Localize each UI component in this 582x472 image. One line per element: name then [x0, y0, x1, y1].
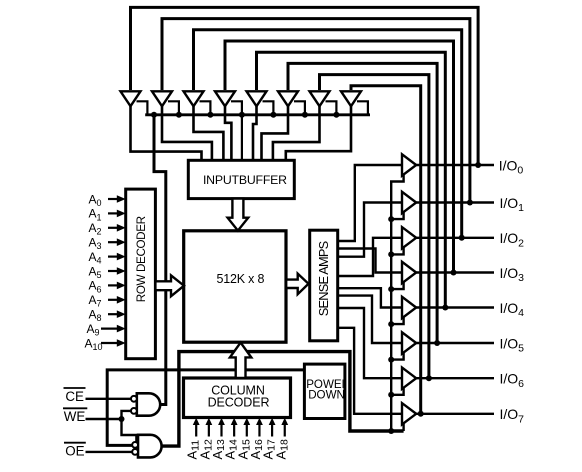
buffer TI5	[247, 91, 267, 106]
node rail dot 7	[333, 112, 339, 118]
block POWER DOWN	[304, 364, 345, 418]
arrowhead A9	[117, 325, 126, 333]
svg-text:CE: CE	[65, 389, 84, 404]
wire I/O4 line	[416, 306, 494, 308]
wire enable tap T5	[263, 101, 274, 115]
wire enable elbow buffer 2	[391, 212, 403, 219]
wire A8 arrow line	[108, 313, 118, 315]
wire top bus line 0 (T1 to I/O0)	[131, 7, 479, 165]
wire A14 arrow	[233, 424, 235, 437]
overline OE	[64, 442, 86, 444]
wire WE input	[86, 418, 122, 420]
wire T4 output to input buffer	[225, 106, 231, 160]
wire T3 output to input buffer	[194, 106, 224, 160]
node rail dot 3	[207, 112, 213, 118]
buffer TO6	[402, 332, 416, 353]
wire sense amp to output buffer 3	[337, 249, 402, 273]
wire CE input	[86, 398, 131, 400]
input buffer triangles (pointing down)	[121, 91, 362, 106]
wire gate G1 output to input-buffer enable rail	[154, 115, 166, 405]
wire T8 output to input buffer	[286, 106, 351, 160]
svg-text:SENSE AMPS: SENSE AMPS	[316, 241, 331, 316]
node I/O5 junction	[434, 340, 440, 346]
arrowhead A4	[117, 253, 126, 261]
wire A16 arrow	[258, 424, 260, 437]
node output rail dot 7	[388, 392, 394, 398]
arrowhead A14	[231, 418, 238, 425]
wire top bus line 3 (T4 to I/O3)	[225, 41, 454, 273]
wire A0 arrow line	[108, 198, 118, 200]
wire enable tap T3	[200, 101, 211, 115]
buffer TO2	[402, 192, 416, 213]
wire I/O5 line	[416, 342, 494, 344]
block ROW DECODER	[126, 189, 156, 359]
wire A17 arrow	[271, 424, 273, 437]
wire power-down control line	[107, 370, 304, 446]
wire gate G2 output read-enable run	[161, 352, 404, 447]
rotated address labels A11-A18	[185, 439, 291, 460]
control gates	[137, 393, 162, 457]
node output rail dot 5	[388, 321, 394, 327]
wire I/O0 line	[416, 164, 494, 166]
gate G1 input bubble 1	[131, 396, 137, 402]
node output rail dot 6	[388, 357, 394, 363]
svg-text:DECODER: DECODER	[208, 395, 270, 409]
node I/O1 junction	[467, 200, 473, 206]
wire T6 output to input buffer	[262, 106, 289, 160]
node I/O6 junction	[426, 375, 432, 381]
hollow arrows	[155, 199, 308, 378]
node output rail dot 2	[388, 216, 394, 222]
gate G1 input bubble 2	[131, 408, 137, 414]
svg-text:WE: WE	[64, 409, 86, 424]
wire enable elbow buffer 5	[391, 317, 403, 324]
wire enable elbow buffer 6	[391, 353, 403, 360]
wire I/O1 line	[416, 201, 494, 203]
arrowhead A15	[243, 418, 250, 425]
node I/O4 junction	[442, 305, 448, 311]
address labels A0-A10	[85, 192, 103, 352]
wire enable tap T8	[357, 101, 368, 115]
wire A12 arrow	[208, 424, 210, 437]
wire A11 arrow	[195, 424, 197, 437]
wire A3 arrow line	[108, 241, 118, 243]
gate G2 (read enable NAND)	[138, 435, 162, 458]
wire enable elbow buffer 7	[391, 388, 403, 395]
wire sense amp to output buffer 6	[337, 308, 402, 378]
svg-text:OE: OE	[65, 444, 84, 459]
arrowhead A12	[205, 418, 212, 425]
wire input-buffer enable rail	[145, 113, 370, 116]
wire A9 arrow line	[101, 328, 118, 330]
wire output-buffer enable rail	[391, 174, 403, 431]
wire I/O3 line	[416, 271, 494, 273]
wire T1 output to input buffer	[131, 106, 202, 160]
node I/O7 junction	[418, 411, 424, 417]
arrowhead A7	[117, 296, 126, 304]
wire sense amp to output buffer 5	[337, 296, 402, 343]
gate G2 input bubble 2	[132, 449, 138, 455]
output buffer triangles (pointing right)	[402, 154, 416, 424]
wire OE input	[86, 451, 133, 453]
gate G1 (CE/WE NAND)	[137, 393, 160, 415]
node rail dot 4	[239, 112, 245, 118]
node output rail dot 8	[388, 428, 394, 434]
block 512K x 8 array	[184, 231, 286, 342]
arrowhead A3	[117, 238, 126, 246]
svg-text:DOWN: DOWN	[308, 389, 345, 402]
buffer TI2	[152, 91, 172, 106]
arrowhead A18	[281, 418, 288, 425]
arrowhead A0	[117, 195, 126, 203]
buffer TI6	[278, 91, 298, 106]
overline CE	[64, 387, 86, 389]
I/O labels	[499, 157, 524, 425]
wire WE branch to G2	[122, 419, 137, 442]
wire WE branch to G1	[122, 411, 131, 419]
control labels with overlines	[64, 389, 86, 459]
wire sense amp to output buffer 0	[337, 165, 402, 241]
buffer TI4	[215, 91, 235, 106]
block INPUT BUFFER	[188, 160, 294, 198]
wire T2 output to input buffer	[162, 106, 212, 160]
node output rail dot 3	[388, 251, 394, 257]
block COLUMN DECODER	[184, 378, 291, 418]
wire A4 arrow line	[108, 256, 118, 258]
node output rail dot 4	[388, 286, 394, 292]
node rail dot 2	[176, 112, 182, 118]
wire I/O2 line	[416, 237, 494, 239]
arrowhead A10	[117, 339, 126, 347]
wire enable elbow buffer 4	[391, 282, 403, 289]
node I/O3 junction	[451, 270, 457, 276]
solid arrowheads into ROW DECODER	[117, 195, 126, 347]
arrowhead A6	[117, 282, 126, 290]
junction dots: top-bus to I/O lines	[119, 112, 482, 434]
block SENSE AMPS	[310, 230, 338, 341]
arrowhead A17	[269, 418, 276, 425]
wire sense amp to output buffer 4	[337, 288, 402, 307]
wire A7 arrow line	[108, 299, 118, 301]
buffer TO3	[402, 227, 416, 248]
arrow COLUMN DECODER to array	[230, 343, 251, 378]
arrowhead A1	[117, 210, 126, 218]
wire T7 output to input buffer	[273, 106, 320, 160]
wire top bus line 2 (T3 to I/O2)	[194, 30, 462, 238]
wire A10 arrow line	[101, 342, 118, 344]
wire A5 arrow line	[108, 270, 118, 272]
wire enable tap T1	[137, 101, 148, 115]
arrowhead A5	[117, 267, 126, 275]
arrowhead A2	[117, 224, 126, 232]
buffer TO4	[402, 262, 416, 283]
wire I/O6 line	[416, 377, 494, 379]
arrow ROW DECODER to array	[155, 275, 184, 296]
arrowhead A8	[117, 310, 126, 318]
svg-text:512K x 8: 512K x 8	[217, 272, 265, 286]
arrow array to SENSE AMPS	[286, 274, 308, 295]
wire A13 arrow	[220, 424, 222, 437]
A11-A18 input arrows	[196, 424, 285, 437]
arrowhead A16	[256, 418, 263, 425]
wire A1 arrow line	[108, 212, 118, 214]
wire I/O7 line	[416, 413, 494, 415]
arrowhead A11	[193, 418, 200, 425]
wire A2 arrow line	[108, 227, 118, 229]
overline WE	[63, 407, 87, 409]
wire top bus line 4 (T5 to I/O4)	[257, 52, 446, 307]
gate G2 input bubble 1	[132, 442, 138, 448]
buffer TI8	[341, 91, 361, 106]
wire enable elbow buffer 3	[391, 247, 403, 254]
wire enable tap T4 into buffer	[231, 101, 242, 160]
wire T5 output to input buffer	[253, 106, 257, 160]
wire A6 arrow line	[108, 284, 118, 286]
boxes	[126, 160, 345, 418]
wire enable tap T2	[168, 101, 179, 115]
buffer TO1	[402, 154, 416, 175]
buffer TO7	[402, 368, 416, 389]
buffer TO8	[402, 403, 416, 424]
wire top bus line 5 (T6 to I/O5)	[288, 63, 437, 343]
node rail dot 5	[270, 112, 276, 118]
arrowhead A13	[218, 418, 225, 425]
buffer TI1	[121, 91, 141, 106]
wire enable tap T6	[294, 101, 305, 115]
node rail dot 6	[302, 112, 308, 118]
wire sense amp to output buffer 7	[337, 328, 402, 414]
wire top bus line 6 (T7 to I/O6)	[320, 75, 429, 379]
text labels	[135, 173, 350, 409]
svg-text:ROW DECODER: ROW DECODER	[135, 216, 148, 302]
node WE branch junction	[119, 416, 125, 422]
svg-text:INPUTBUFFER: INPUTBUFFER	[203, 173, 287, 187]
wire A18 arrow	[284, 424, 286, 437]
wire sense amp to output buffer 2	[337, 238, 402, 276]
wire top bus line 7 (T8 to I/O7)	[351, 86, 421, 414]
node rail dot 1	[151, 112, 157, 118]
wire sense amp to output buffer 1	[337, 203, 402, 257]
buffer TI7	[310, 91, 330, 106]
wire top bus line 1 (T2 to I/O1)	[162, 19, 470, 203]
node I/O0 junction	[475, 162, 481, 168]
buffer TO5	[402, 297, 416, 318]
wire A15 arrow	[246, 424, 248, 437]
buffer TI3	[184, 91, 204, 106]
arrow INPUT BUFFER to array	[228, 199, 249, 231]
wire enable tap T7	[326, 101, 337, 115]
node I/O2 junction	[459, 235, 465, 241]
wire enable elbow buffer 8	[402, 423, 404, 431]
